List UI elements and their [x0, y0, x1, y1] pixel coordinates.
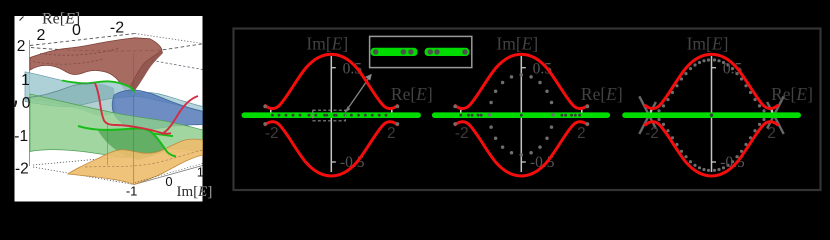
inset eigenvalue dots — [373, 49, 378, 54]
svg-text:2: 2 — [17, 38, 26, 55]
subplot2 red OBC spectrum envelope upper — [455, 54, 587, 108]
partial glyph at left edge — [15, 101, 18, 108]
svg-text:0: 0 — [22, 95, 31, 112]
svg-text:Im[E]: Im[E] — [496, 34, 538, 54]
vertical box edge overlays — [133, 95, 135, 185]
subplot1 dashed zoom box — [313, 110, 346, 121]
z-axis diagonal mark top-left — [20, 17, 24, 21]
red EP curve main S — [95, 83, 171, 134]
svg-text:-2: -2 — [15, 161, 29, 178]
orange bottom surface — [68, 139, 203, 184]
3D box dashed top edges — [30, 34, 135, 46]
subplot1 red OBC spectrum envelope lower — [265, 122, 397, 176]
svg-text:-1: -1 — [126, 184, 138, 199]
subplot2 red OBC spectrum envelope lower — [455, 122, 587, 176]
floating dashed silhouette right — [152, 61, 203, 70]
teal fold silhouette — [25, 83, 95, 98]
svg-text:1: 1 — [197, 164, 204, 179]
svg-text:Im[E]: Im[E] — [306, 34, 348, 54]
3D box vertical edges — [29, 40, 31, 166]
right panel frame — [234, 29, 821, 191]
svg-text:2: 2 — [577, 125, 586, 142]
subplot3 PBC eigenvalue dots along envelope upper arc — [657, 109, 660, 112]
subplot3 red OBC spectrum envelope lower — [646, 122, 778, 176]
svg-text:2: 2 — [387, 125, 396, 142]
green sheet center dark patch — [97, 128, 167, 160]
svg-text:Im[E]: Im[E] — [687, 34, 729, 54]
subplot1 inset box — [370, 36, 472, 67]
subplot1 green real-axis bar — [242, 112, 421, 118]
bright green EP curve upper — [62, 81, 135, 93]
svg-text:2: 2 — [37, 27, 46, 44]
blue sheet — [112, 90, 202, 130]
brown surface inner mesh lines — [40, 48, 120, 55]
subplot3 eigenvalue line crossings (X) left — [639, 96, 656, 128]
green sheet main band — [30, 94, 203, 157]
subplot1 exceptional point dots — [263, 105, 267, 109]
teal sheet right thin band — [133, 92, 203, 111]
svg-text:Re[E]: Re[E] — [581, 84, 623, 104]
brown front dark face — [127, 50, 164, 96]
subplot3 eigenvalue line crossings (X) right — [767, 96, 784, 128]
bright green EP curve lower — [78, 126, 176, 157]
subplot1 eigenvalue dots on real axis — [271, 114, 274, 117]
3D box dotted bottom edges — [33, 150, 203, 166]
subplot2 PBC eigenvalue ring dots — [551, 113, 555, 117]
subplot1 red OBC spectrum envelope upper — [265, 54, 397, 108]
svg-text:-2: -2 — [455, 125, 469, 142]
svg-text:0: 0 — [165, 174, 172, 189]
subplot1 axis Im — [330, 56, 332, 172]
3D box bottom front edge — [134, 166, 203, 185]
subplot3 red OBC spectrum envelope upper — [646, 54, 778, 108]
svg-text:1: 1 — [21, 72, 30, 89]
svg-text:-2: -2 — [110, 20, 124, 37]
3D plot white background — [15, 16, 203, 202]
teal sheet main — [25, 72, 135, 107]
svg-text:Re[E]: Re[E] — [771, 84, 813, 104]
inset green bar segment B — [425, 48, 470, 56]
svg-text:-2: -2 — [645, 125, 659, 142]
svg-text:Re[E]: Re[E] — [391, 84, 433, 104]
svg-text:2: 2 — [767, 125, 776, 142]
subplot2 eigenvalue dots on real axis — [459, 114, 462, 117]
inset green bar segment A — [371, 48, 418, 56]
subplot2 axis Im — [520, 56, 522, 172]
red EP curve right branch — [162, 96, 199, 134]
subplot2 exceptional point dots — [453, 105, 457, 109]
orange mesh dashed line — [85, 150, 203, 167]
brown upper band surface — [30, 38, 162, 92]
subplot2 green real-axis bar — [432, 112, 610, 118]
subplot1 arrow to inset — [346, 78, 370, 112]
subplot3 axis Im — [711, 56, 713, 172]
svg-text:-2: -2 — [265, 125, 279, 142]
svg-text:-1: -1 — [14, 128, 28, 145]
dotted back edge above bottom front — [135, 164, 203, 183]
subplot3 PBC eigenvalue dots along envelope lower arc — [657, 118, 660, 121]
teal sheet underside accent — [25, 83, 116, 115]
subplot3 green real-axis bar — [622, 112, 801, 118]
